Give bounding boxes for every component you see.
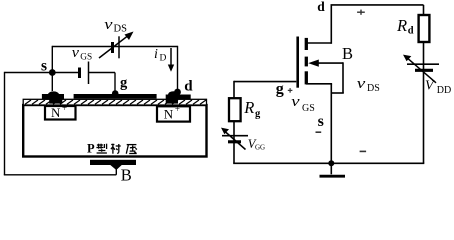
svg-text:v: v (72, 45, 80, 61)
svg-text:g: g (120, 75, 128, 91)
svg-text:d: d (408, 25, 414, 36)
svg-text:R: R (396, 16, 407, 35)
svg-text:R: R (243, 98, 254, 117)
svg-text:B: B (121, 166, 132, 184)
svg-text:v: v (104, 17, 113, 33)
svg-text:v: v (291, 94, 300, 110)
svg-text:i: i (154, 47, 158, 62)
svg-text:B: B (342, 44, 353, 63)
svg-text:GG: GG (255, 143, 265, 151)
svg-text:+: + (175, 104, 180, 114)
svg-text:GS: GS (302, 103, 315, 114)
svg-text:g: g (276, 81, 284, 98)
svg-text:s: s (318, 113, 324, 130)
svg-text:g: g (255, 109, 261, 120)
svg-text:v: v (357, 76, 366, 92)
svg-text:N: N (51, 105, 61, 120)
svg-text:+: + (62, 103, 67, 113)
svg-text:V: V (425, 79, 435, 94)
svg-text:DD: DD (437, 85, 451, 96)
svg-text:DS: DS (114, 24, 128, 35)
svg-text:N: N (164, 106, 174, 121)
svg-text:D: D (160, 53, 167, 63)
svg-text:GS: GS (80, 52, 92, 62)
svg-text:s: s (41, 58, 47, 75)
svg-text:DS: DS (367, 83, 380, 94)
svg-text:d: d (184, 79, 193, 95)
svg-text:P: P (87, 142, 95, 156)
svg-text:d: d (317, 0, 325, 14)
